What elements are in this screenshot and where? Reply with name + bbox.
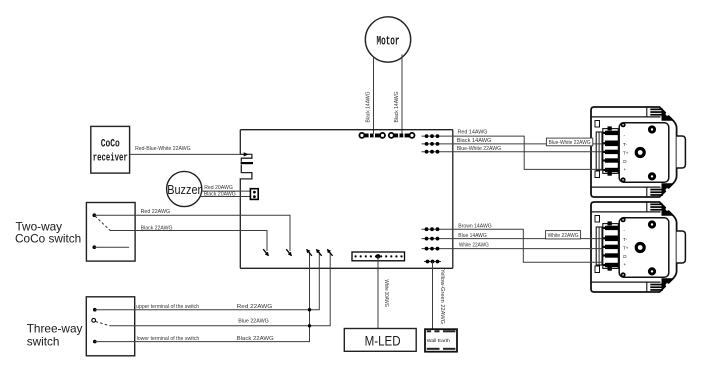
junction dot travelers middle: [308, 324, 311, 327]
wire white 22AWG: [441, 248, 603, 250]
wire white 20AWG: [377, 256, 379, 328]
wire red-blue-white 22AWG: [130, 153, 252, 155]
wire entry block: [596, 132, 602, 170]
arrow lower wire: [307, 250, 312, 256]
connector body: [591, 107, 677, 197]
svg-text:switch: switch: [27, 335, 60, 349]
svg-text:Red-Blue-White 22AWG: Red-Blue-White 22AWG: [135, 146, 191, 152]
svg-text:Buzzer: Buzzer: [167, 183, 201, 197]
splice connector right (motor wire 2): [389, 133, 415, 138]
terminal 4: [603, 159, 605, 161]
svg-text:Black 14AWG: Black 14AWG: [394, 92, 400, 123]
svg-text:Motor: Motor: [377, 34, 400, 49]
boxed label White 22AWG: [546, 231, 581, 239]
svg-text:lower terminal of the switch: lower terminal of the switch: [137, 336, 200, 342]
svg-text:Brown 14AWG: Brown 14AWG: [458, 224, 491, 230]
bottom-right corner fill: [662, 183, 675, 196]
two-way CoCo switch box: [86, 203, 135, 262]
mounting plate: [619, 123, 669, 182]
wire brown 14AWG: [441, 229, 603, 262]
svg-text:White 22AWG: White 22AWG: [548, 233, 579, 239]
M-LED box: [344, 329, 416, 352]
arrow middle wire: [327, 250, 332, 256]
wire red 20AWG: [202, 190, 251, 192]
3-dot connector white 22AWG: [422, 247, 442, 251]
wire middle blue 22AWG: [110, 252, 330, 326]
boxed label Blue-White 22AWG: [546, 138, 592, 146]
top strip line: [591, 116, 661, 118]
arrow upper wire: [317, 250, 322, 256]
screw top-left: [621, 122, 626, 127]
svg-text:Black 14AWG: Black 14AWG: [366, 92, 372, 123]
CoCo receiver box: [91, 126, 130, 173]
switch contact dot upper: [93, 213, 97, 217]
svg-text:Three-way: Three-way: [27, 322, 83, 336]
screw bottom-left: [621, 177, 626, 182]
svg-text:Black 14AWG: Black 14AWG: [457, 138, 492, 144]
svg-text:CoCo: CoCo: [101, 139, 120, 151]
wire upper terminal red 22AWG: [95, 252, 319, 310]
terminal 1: [608, 126, 612, 130]
svg-text:Black 22AWG: Black 22AWG: [141, 225, 173, 231]
svg-text:upper terminal of the switch: upper terminal of the switch: [136, 304, 199, 310]
svg-text:Black 20AWG: Black 20AWG: [204, 191, 236, 197]
control box right edge: [452, 130, 454, 269]
svg-text:Blue-White 22AWG: Blue-White 22AWG: [457, 146, 501, 152]
bottom vent slots: [650, 189, 663, 191]
wire red 22AWG (two-way): [94, 215, 290, 251]
control box left edge antenna jog: [240, 154, 252, 161]
buzzer B1: [167, 171, 202, 206]
3-dot connector blue 14AWG: [422, 237, 442, 241]
left step bottom: [595, 171, 600, 178]
terminal 2: [603, 142, 605, 144]
svg-text:Blue 22AWG: Blue 22AWG: [238, 318, 269, 324]
svg-text:T-: T-: [623, 142, 628, 147]
svg-text:Red 22AWG: Red 22AWG: [237, 304, 273, 310]
screw top-right: [648, 125, 656, 133]
top-right corner fill: [662, 108, 675, 121]
wire motor black 14AWG right: [401, 55, 403, 136]
wire black 20AWG: [200, 196, 250, 198]
wire red 14AWG: [441, 136, 603, 169]
three-way common circle: [92, 318, 96, 322]
svg-text:CoCo switch: CoCo switch: [15, 232, 81, 246]
control box bottom edge: [240, 267, 452, 269]
svg-text:Blue-White 22AWG: Blue-White 22AWG: [549, 140, 591, 146]
terminal 5: [603, 169, 605, 171]
terminal 3: [603, 151, 605, 153]
arrow black 22AWG: [263, 249, 268, 255]
svg-text:Yellow-Green 22AWG: Yellow-Green 22AWG: [439, 269, 445, 324]
3-dot connector red 14AWG: [422, 134, 442, 138]
wall earth box: [425, 329, 457, 352]
svg-text:Blue 14AWG: Blue 14AWG: [458, 233, 486, 239]
left step top: [595, 121, 600, 128]
svg-text:Red 20AWG: Red 20AWG: [204, 185, 233, 191]
svg-text:Black 22AWG: Black 22AWG: [237, 336, 274, 342]
arrowhead into box edge: [244, 152, 249, 156]
wire blue-white 22AWG: [441, 151, 603, 153]
side bump: [677, 136, 686, 168]
2-pin connector buzzer: [250, 189, 258, 200]
antenna bar: [241, 162, 253, 164]
svg-text:White 20AWG: White 20AWG: [383, 280, 389, 308]
svg-text:receiver: receiver: [93, 153, 128, 165]
junction dot travelers upper: [308, 308, 311, 311]
three-way contact dot lower: [93, 340, 97, 344]
control box top edge: [240, 129, 452, 131]
svg-text:Red 14AWG: Red 14AWG: [458, 130, 488, 136]
svg-text:+: +: [624, 167, 627, 172]
3-dot connector blue-white 22AWG: [422, 150, 442, 154]
shaft ring: [635, 147, 646, 158]
switch contact dot lower + stub: [93, 245, 97, 249]
control box left edge lower jog: [240, 165, 252, 269]
svg-text:T+: T+: [623, 151, 629, 156]
wire black 22AWG (two-way): [111, 231, 268, 252]
wire blue 14AWG: [441, 238, 603, 240]
actuator connector assembly definition: [591, 107, 685, 198]
wire lower black 22AWG: [95, 252, 310, 342]
terminal strip TB1: [352, 252, 405, 261]
svg-text:M-LED: M-LED: [365, 333, 401, 348]
three-way throw dashed: [96, 322, 111, 326]
wire yellow-green 22AWG: [432, 262, 434, 335]
bottom strip line: [591, 186, 661, 188]
actuator connector 2 (lower): [591, 202, 685, 293]
screw bottom-right: [648, 172, 656, 180]
wire black 14AWG: [441, 143, 603, 145]
svg-text:Wall Earth: Wall Earth: [427, 338, 450, 344]
terminal block: [603, 129, 619, 174]
control box left edge upper: [239, 130, 241, 155]
3-dot connector brown 14AWG: [422, 227, 442, 231]
three-way contact dot upper: [93, 308, 97, 312]
switch throw dashed: [95, 216, 111, 231]
svg-text:White 22AWG: White 22AWG: [459, 243, 489, 249]
wire motor black 14AWG left: [373, 57, 375, 136]
three-way switch box: [86, 297, 134, 356]
3-dot connector black 14AWG: [422, 142, 442, 146]
motor M: [365, 17, 410, 62]
junction dot terminal strip: [376, 254, 381, 259]
svg-text:Red 22AWG: Red 22AWG: [141, 209, 171, 215]
arrow red 22AWG: [286, 249, 291, 255]
top vent slots: [650, 109, 663, 111]
splice connector left (motor wire 1): [359, 133, 385, 138]
3-dot connector yellow-green: [424, 260, 441, 264]
